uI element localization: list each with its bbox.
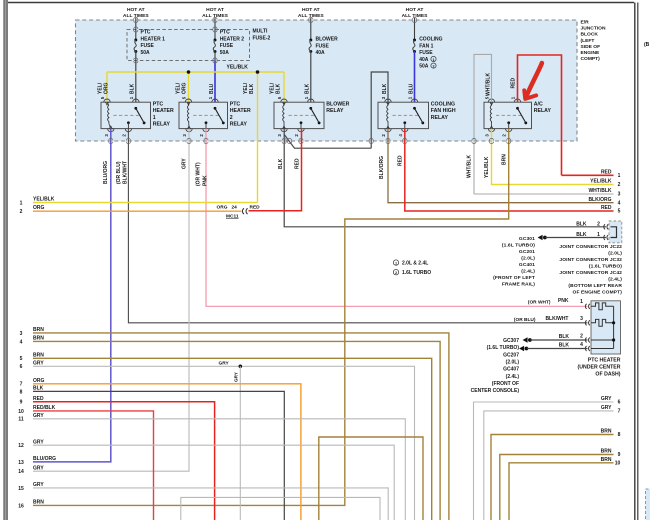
svg-text:3: 3 xyxy=(618,192,621,198)
wire YEL/BLK A/C pin3 to right edge 2 xyxy=(492,129,614,185)
wire BRN right 9 xyxy=(500,455,614,520)
crossing arcs at box tops for fuse feeds xyxy=(134,17,138,19)
svg-text:GC401: GC401 xyxy=(519,262,535,268)
svg-text:(1.6L TURBO): (1.6L TURBO) xyxy=(487,345,520,351)
bottom-right page fragment xyxy=(646,489,650,520)
svg-text:HEATER 2: HEATER 2 xyxy=(220,36,245,42)
svg-text:12: 12 xyxy=(18,443,24,449)
svg-text:HEATER: HEATER xyxy=(230,108,251,114)
fuse F1 PTC HEATER 1 FUSE 50A xyxy=(135,18,137,40)
svg-text:GC407: GC407 xyxy=(503,367,519,373)
svg-text:2: 2 xyxy=(597,222,600,228)
svg-text:SIDE OF: SIDE OF xyxy=(581,44,601,50)
wire BLK GC407 to PTC pin4 xyxy=(527,348,588,350)
svg-text:2: 2 xyxy=(20,209,23,215)
PTC heater internal bus xyxy=(613,306,615,348)
wire ORG left 2 xyxy=(33,210,242,212)
joint connector box xyxy=(609,221,622,243)
svg-text:BLU: BLU xyxy=(409,83,415,94)
svg-text:GRY: GRY xyxy=(33,482,44,488)
wire BRN right 10 xyxy=(509,463,614,520)
svg-text:7: 7 xyxy=(618,409,621,415)
wire BRN left 4 xyxy=(33,341,440,520)
svg-text:BLU/ORG: BLU/ORG xyxy=(103,161,109,184)
svg-text:WHT/BLK: WHT/BLK xyxy=(467,155,473,178)
wire BLK/ORG cooling fan pin2 to right edge 4 xyxy=(388,129,614,203)
svg-text:FAN HIGH: FAN HIGH xyxy=(431,108,456,114)
svg-text:RELAY: RELAY xyxy=(534,108,552,114)
svg-text:11: 11 xyxy=(18,417,24,423)
svg-text:(BOTTOM LEFT REAR: (BOTTOM LEFT REAR xyxy=(568,283,622,289)
wire BLU fuse F2 to relay R2 pin 1 xyxy=(214,52,216,61)
svg-text:(FRONT OF LEFT: (FRONT OF LEFT xyxy=(493,275,535,281)
svg-text:GC207: GC207 xyxy=(503,352,519,358)
PTC heater element pin1 xyxy=(591,303,614,310)
svg-text:(OR WHT): (OR WHT) xyxy=(528,299,551,305)
svg-text:1: 1 xyxy=(618,173,621,179)
svg-text:BLOWER: BLOWER xyxy=(326,101,349,107)
ground GC407 xyxy=(519,346,524,351)
wire BLU fuse F4 to cooling fan relay pin 1 xyxy=(414,51,416,102)
svg-text:(2.0L): (2.0L) xyxy=(506,359,520,365)
svg-text:E/R: E/R xyxy=(581,20,590,26)
svg-text:RELAY: RELAY xyxy=(230,122,248,128)
svg-text:FAN 1: FAN 1 xyxy=(419,43,433,49)
svg-text:BRN: BRN xyxy=(33,352,44,358)
svg-text:BLK: BLK xyxy=(305,83,311,94)
svg-text:2.0L & 2.4L: 2.0L & 2.4L xyxy=(402,261,428,267)
legend circled 2 at fuse xyxy=(431,63,436,68)
svg-text:FUSE: FUSE xyxy=(141,43,155,49)
wire BLK blower pin3 to ground bus xyxy=(284,129,606,227)
wire BLK GC307 to PTC pin2 xyxy=(531,339,588,341)
svg-text:PNK: PNK xyxy=(203,175,209,186)
wire GRY pass-through xyxy=(181,497,380,520)
wire RED/BLK left 10 xyxy=(33,411,154,520)
svg-text:ALL TIMES: ALL TIMES xyxy=(402,13,428,19)
wire PNK R2 pin2 to PTC heater pin1 xyxy=(206,129,588,307)
svg-text:ORG: ORG xyxy=(182,83,188,95)
wire YEL/ORG riser to R2 pin 5 xyxy=(188,72,190,102)
svg-text:14: 14 xyxy=(18,469,24,475)
wire BLK fuse F1 to relay R1 pin 1 xyxy=(135,52,137,103)
wire RED cooling fan pin4 to right edge 5 xyxy=(405,129,614,211)
svg-text:CENTER CONSOLE): CENTER CONSOLE) xyxy=(471,388,520,394)
svg-text:BLU/ORG: BLU/ORG xyxy=(33,456,56,462)
svg-text:2: 2 xyxy=(618,182,621,188)
wire YEL/BLK left 1 xyxy=(33,202,258,204)
joint connector bus bracket xyxy=(611,227,617,238)
svg-text:(2.0L): (2.0L) xyxy=(521,256,535,262)
svg-text:BLK: BLK xyxy=(276,83,282,94)
wire GRY R2 pin3 to left wire 14 xyxy=(33,129,189,472)
svg-text:BLK: BLK xyxy=(130,83,136,94)
svg-text:BRN: BRN xyxy=(601,429,612,435)
svg-text:(1.6L TURBO): (1.6L TURBO) xyxy=(502,243,535,249)
svg-text:PTC: PTC xyxy=(230,101,241,107)
legend engine variants xyxy=(393,260,398,265)
svg-text:50A: 50A xyxy=(141,50,151,56)
svg-text:PTC HEATER: PTC HEATER xyxy=(588,357,621,363)
wire BLK cooling fan pin3 loop xyxy=(371,72,388,148)
svg-text:BLU: BLU xyxy=(209,83,215,94)
svg-text:15: 15 xyxy=(18,486,24,492)
svg-text:GRY: GRY xyxy=(601,405,612,411)
svg-text:GC201: GC201 xyxy=(519,249,535,255)
svg-text:8: 8 xyxy=(20,389,23,395)
svg-text:1.6L TURBO: 1.6L TURBO xyxy=(402,270,431,276)
svg-text:BRN: BRN xyxy=(601,457,612,463)
svg-text:40A: 40A xyxy=(419,57,429,63)
svg-text:RED: RED xyxy=(398,155,404,166)
svg-text:BLK/WHT: BLK/WHT xyxy=(123,161,129,184)
svg-text:A/C: A/C xyxy=(534,101,543,107)
MULTI FUSE-2 box xyxy=(127,30,250,61)
svg-text:BLOCK: BLOCK xyxy=(581,32,599,38)
svg-text:RED: RED xyxy=(295,158,301,169)
svg-text:(LEFT: (LEFT xyxy=(581,38,595,44)
svg-text:FRAME RAIL): FRAME RAIL) xyxy=(502,282,535,288)
svg-text:7: 7 xyxy=(20,382,23,388)
svg-text:GRY: GRY xyxy=(182,158,188,169)
svg-text:BLK: BLK xyxy=(559,334,570,340)
svg-text:BRN: BRN xyxy=(33,336,44,342)
svg-text:4: 4 xyxy=(618,200,621,206)
svg-text:50A: 50A xyxy=(419,64,429,70)
svg-text:FUSE: FUSE xyxy=(316,43,330,49)
svg-text:JOINT CONNECTOR JC32: JOINT CONNECTOR JC32 xyxy=(559,257,622,263)
svg-text:PTC: PTC xyxy=(153,101,164,107)
fuse F3 BLOWER FUSE 40A xyxy=(310,18,312,40)
svg-text:HOT AT: HOT AT xyxy=(406,7,424,13)
svg-text:YEL/BLK: YEL/BLK xyxy=(227,65,249,71)
svg-text:RELAY: RELAY xyxy=(326,108,344,114)
svg-text:(OR WHT): (OR WHT) xyxy=(196,162,202,186)
wire GRY left 6 xyxy=(33,366,415,520)
svg-text:COOLING: COOLING xyxy=(419,37,442,43)
relay R2 PTC HEATER 2 RELAY xyxy=(179,102,228,128)
svg-text:ORG: ORG xyxy=(217,205,228,211)
relay R3 BLOWER RELAY xyxy=(274,102,324,128)
svg-text:JOINT CONNECTOR JC22: JOINT CONNECTOR JC22 xyxy=(559,244,622,250)
junction dot wire 6 branch xyxy=(239,365,243,369)
svg-text:MULTI: MULTI xyxy=(253,29,269,35)
wire YEL/BLK bus xyxy=(107,71,284,73)
svg-text:RELAY: RELAY xyxy=(153,122,171,128)
svg-text:RED: RED xyxy=(601,205,612,211)
E/R junction block box xyxy=(76,20,578,141)
svg-text:4: 4 xyxy=(20,339,23,345)
svg-text:HEATER: HEATER xyxy=(153,108,174,114)
svg-text:OF DASH): OF DASH) xyxy=(595,371,620,377)
svg-text:2: 2 xyxy=(580,333,583,339)
svg-text:(UNDER CENTER: (UNDER CENTER xyxy=(578,364,621,370)
wire BRN right 8 xyxy=(491,435,614,520)
svg-text:BLK: BLK xyxy=(382,83,388,94)
svg-text:5: 5 xyxy=(20,356,23,362)
svg-text:BLK: BLK xyxy=(33,386,44,392)
svg-text:ORG: ORG xyxy=(33,378,45,384)
wire BLK left 8 xyxy=(33,391,284,520)
svg-text:(OR BLU): (OR BLU) xyxy=(116,161,122,184)
junction dot R2 riser xyxy=(187,70,191,74)
svg-text:GC307: GC307 xyxy=(503,338,519,344)
svg-text:RELAY: RELAY xyxy=(431,115,449,121)
svg-text:(FRONT OF: (FRONT OF xyxy=(492,381,519,387)
wire YEL/BLK riser to left wire 1 xyxy=(257,72,259,203)
svg-text:RED: RED xyxy=(601,170,612,176)
svg-text:8: 8 xyxy=(618,432,621,438)
connector arcs JC xyxy=(604,224,605,229)
svg-text:1: 1 xyxy=(597,232,600,238)
svg-text:WHT/BLK: WHT/BLK xyxy=(486,73,492,96)
svg-text:BLK: BLK xyxy=(249,83,255,94)
svg-text:(B: (B xyxy=(644,42,650,48)
wire RED to right edge 1 xyxy=(562,174,614,176)
relay R4 COOLING FAN HIGH RELAY xyxy=(378,102,429,128)
svg-text:PTC: PTC xyxy=(141,30,151,36)
connector arcs PTC heater xyxy=(585,304,586,309)
wire RED A/C pin1 loop xyxy=(518,55,562,175)
ground GC307 xyxy=(523,337,528,342)
svg-text:(OR BLU): (OR BLU) xyxy=(514,317,536,323)
svg-text:BRN: BRN xyxy=(33,327,44,333)
svg-text:HOT AT: HOT AT xyxy=(206,7,224,13)
fuse F4 COOLING FAN 1 FUSE 40A/50A xyxy=(414,18,416,40)
svg-text:COMPT): COMPT) xyxy=(581,56,601,62)
wire GRY right 7 xyxy=(484,411,614,520)
wire BLU/ORG R1 pin3 to left wire 13 xyxy=(33,129,111,462)
ground GC301 xyxy=(538,235,543,240)
wire GRY right 6 xyxy=(474,402,614,520)
svg-text:10: 10 xyxy=(615,461,621,467)
svg-text:FUSE: FUSE xyxy=(419,50,433,56)
svg-text:2: 2 xyxy=(230,115,233,121)
PTC heater element pin3 xyxy=(591,319,614,326)
svg-text:ORG: ORG xyxy=(104,83,110,95)
svg-text:40A: 40A xyxy=(316,50,326,56)
svg-text:BLOWER: BLOWER xyxy=(316,37,339,43)
wire BRN left 3 xyxy=(33,333,449,520)
svg-text:(2.4L): (2.4L) xyxy=(506,374,520,380)
svg-text:16: 16 xyxy=(18,503,24,509)
svg-text:(2.0L): (2.0L) xyxy=(608,251,622,257)
right page border xyxy=(634,3,636,520)
relay R5 A/C RELAY xyxy=(484,102,532,128)
wire GRY left 15 xyxy=(33,488,388,520)
svg-text:GRY: GRY xyxy=(33,413,44,419)
wire BRN left 5 xyxy=(33,358,432,520)
svg-text:WHT/BLK: WHT/BLK xyxy=(588,188,611,194)
connector MC11 xyxy=(242,208,244,214)
svg-text:(1.6L TURBO): (1.6L TURBO) xyxy=(589,264,622,270)
svg-text:PNK: PNK xyxy=(558,298,569,304)
svg-text:OF ENGINE COMPT): OF ENGINE COMPT) xyxy=(573,290,623,296)
crossing arcs at junction box bottom border xyxy=(109,138,113,140)
PTC heater internal stubs xyxy=(591,339,614,341)
svg-text:ALL TIMES: ALL TIMES xyxy=(123,13,149,19)
svg-text:GRY: GRY xyxy=(33,439,44,445)
svg-text:HEATER 1: HEATER 1 xyxy=(141,36,166,42)
svg-text:GRY: GRY xyxy=(33,360,44,366)
wire YEL/ORG riser to R1 pin 5 xyxy=(106,72,108,102)
wire BRN A/C pin2 to left wire 16 xyxy=(33,129,509,506)
svg-text:PTC: PTC xyxy=(220,30,230,36)
svg-text:COOLING: COOLING xyxy=(431,101,455,107)
svg-text:RED: RED xyxy=(33,396,44,402)
legend circled 1 at fuse xyxy=(431,56,436,61)
svg-text:BLK: BLK xyxy=(278,158,284,169)
wire GRY left 12 xyxy=(33,445,394,520)
svg-text:3: 3 xyxy=(580,316,583,322)
svg-text:ENGINE: ENGINE xyxy=(581,50,600,56)
wire BLK blower pin3 branch diagonal xyxy=(284,135,371,149)
wire WHT/BLK A/C pin5 loop xyxy=(474,54,492,194)
wire GRY branch down xyxy=(239,366,241,520)
svg-text:BLK: BLK xyxy=(576,232,587,238)
wire GRY left 11 xyxy=(33,419,405,520)
svg-text:RED: RED xyxy=(511,78,517,89)
svg-text:BRN: BRN xyxy=(502,154,508,165)
svg-text:RED: RED xyxy=(250,205,261,211)
svg-text:GRY: GRY xyxy=(33,465,44,471)
svg-text:BRN: BRN xyxy=(33,500,44,506)
wire BLK GC301 to JC pin1 xyxy=(546,237,607,239)
svg-text:BRN: BRN xyxy=(601,449,612,455)
svg-text:GRY: GRY xyxy=(234,372,239,382)
wire ORG left 7 xyxy=(33,384,301,520)
svg-text:YEL/BLK: YEL/BLK xyxy=(484,156,490,178)
svg-text:9: 9 xyxy=(20,400,23,406)
PTC heater box xyxy=(591,301,621,354)
svg-text:(2.4L): (2.4L) xyxy=(608,277,622,283)
svg-text:JOINT CONNECTOR JC42: JOINT CONNECTOR JC42 xyxy=(559,270,622,276)
svg-text:1: 1 xyxy=(395,261,397,265)
svg-text:JUNCTION: JUNCTION xyxy=(581,26,606,32)
svg-text:13: 13 xyxy=(18,460,24,466)
svg-text:BLK/ORG: BLK/ORG xyxy=(588,197,611,203)
svg-text:YEL/BLK: YEL/BLK xyxy=(590,179,612,185)
svg-text:6: 6 xyxy=(20,364,23,370)
svg-text:HOT AT: HOT AT xyxy=(302,7,320,13)
svg-text:24: 24 xyxy=(232,205,238,211)
svg-text:FUSE: FUSE xyxy=(220,43,234,49)
svg-text:BLK: BLK xyxy=(559,342,570,348)
svg-text:10: 10 xyxy=(18,409,24,415)
svg-text:BLK/ORG: BLK/ORG xyxy=(379,156,385,179)
svg-text:BLK: BLK xyxy=(576,222,587,228)
svg-text:4: 4 xyxy=(580,342,583,348)
svg-text:1: 1 xyxy=(432,58,434,62)
svg-text:GC301: GC301 xyxy=(519,236,535,242)
svg-text:6: 6 xyxy=(618,400,621,406)
relay R1 PTC HEATER 1 RELAY xyxy=(101,102,151,128)
svg-text:ALL TIMES: ALL TIMES xyxy=(202,13,228,19)
wire BLK/WHT R1 pin2 to PTC heater pin3 xyxy=(128,129,587,323)
wire RED left 9 xyxy=(33,402,215,520)
svg-text:1: 1 xyxy=(20,200,23,206)
svg-text:2: 2 xyxy=(432,65,434,69)
annotation red arrow xyxy=(526,63,542,98)
wire WHT/BLK to right edge 3 xyxy=(474,193,614,195)
svg-text:ALL TIMES: ALL TIMES xyxy=(298,13,324,19)
wire YEL/BLK riser to blower relay pin 5 xyxy=(283,72,285,102)
fuse F2 PTC HEATER 2 FUSE 50A xyxy=(214,18,216,40)
svg-text:3: 3 xyxy=(20,331,23,337)
svg-text:BLK/WHT: BLK/WHT xyxy=(545,316,568,322)
svg-text:1: 1 xyxy=(580,299,583,305)
svg-text:GRY: GRY xyxy=(601,396,612,402)
svg-text:(2.4L): (2.4L) xyxy=(521,269,535,275)
svg-text:FUSE-2: FUSE-2 xyxy=(253,35,271,41)
wire BLK fuse F3 to blower relay pin 1 xyxy=(310,52,312,103)
svg-text:RED/BLK: RED/BLK xyxy=(33,405,56,411)
wire RED blower pin2 via MC11 xyxy=(249,129,302,211)
svg-text:YEL/BLK: YEL/BLK xyxy=(33,196,55,202)
svg-text:1: 1 xyxy=(153,115,156,121)
wire BRN pass-through xyxy=(319,437,423,520)
svg-text:50A: 50A xyxy=(220,50,230,56)
svg-text:5: 5 xyxy=(618,209,621,215)
junction dot wire1 riser xyxy=(256,70,260,74)
svg-text:9: 9 xyxy=(618,452,621,458)
svg-text:HOT AT: HOT AT xyxy=(127,7,145,13)
svg-text:2: 2 xyxy=(395,271,397,275)
svg-text:GRY: GRY xyxy=(219,361,230,367)
svg-text:ORG: ORG xyxy=(33,205,45,211)
top page border xyxy=(8,2,634,4)
